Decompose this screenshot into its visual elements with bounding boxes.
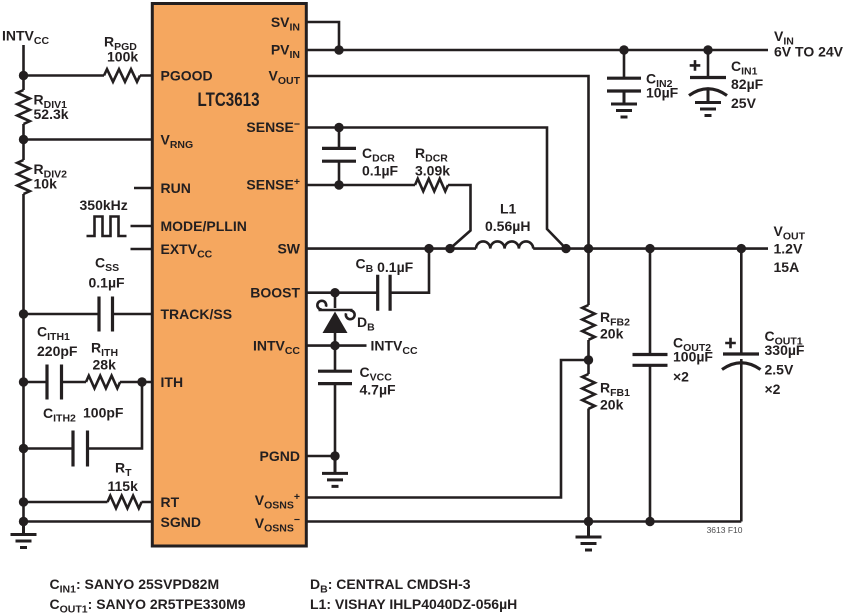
wire PVIN to VIN [308, 49, 769, 52]
node junction dot rail-VRNG [19, 135, 28, 144]
capacitor CVCC [318, 346, 352, 461]
resistor RITH [86, 376, 120, 389]
svg-text:100µF: 100µF [673, 349, 713, 365]
node junction dot SENSE+ CDCR [334, 180, 343, 189]
node junction dot VIN-CIN1 [703, 45, 712, 54]
ground below CIN1 [695, 90, 721, 116]
resistor RDIV2 [17, 160, 30, 194]
wire VOUT pin right and down to SW bus [308, 76, 589, 249]
wire rail segment below RDIV2 down to SGND [22, 194, 25, 522]
node junction dot PGND [330, 451, 339, 460]
capacitor CB [378, 275, 390, 311]
resistor RT [108, 496, 142, 509]
wire PGND pin [308, 455, 336, 458]
svg-text:0.1µF: 0.1µF [362, 163, 399, 179]
node junction dot VIN-CIN2 [619, 45, 628, 54]
svg-text:PGND: PGND [260, 448, 300, 464]
op-amp U1 LTC3613 body [152, 4, 306, 547]
wire VRNG to rail [24, 138, 152, 141]
wire SW bus left of L1 [308, 247, 477, 250]
svg-text:52.3k: 52.3k [34, 106, 69, 122]
svg-text:PGOOD: PGOOD [161, 68, 213, 84]
svg-text:LTC3613: LTC3613 [198, 90, 260, 111]
svg-text:10µF: 10µF [646, 85, 679, 101]
node junction dot SENSE- CDCR [334, 123, 343, 132]
svg-text:3613 F10: 3613 F10 [707, 525, 743, 535]
ground signal ground below SGND [11, 522, 37, 548]
wire MODE/PLLIN stub [131, 225, 152, 228]
svg-text:25V: 25V [731, 95, 757, 111]
capacitor CDCR [322, 128, 356, 186]
node junction dot feedback tap [584, 355, 593, 364]
node junction dot rail-RT [19, 497, 28, 506]
wire RFB2 top lead [587, 249, 590, 305]
svg-text:TRACK/SS: TRACK/SS [161, 306, 233, 322]
wire SVIN jog to PVIN [308, 22, 340, 50]
capacitor CIN1 polarized [689, 50, 727, 96]
node junction dot L1 right sense [561, 244, 570, 253]
node junction dot SW-CB [424, 244, 433, 253]
svg-text:82µF: 82µF [731, 76, 764, 92]
wire INTVCC rail segment top [22, 45, 25, 90]
svg-text:20k: 20k [600, 397, 624, 413]
capacitor COUT2 [633, 355, 668, 366]
svg-text:L1: VISHAY IHLP4040DZ-056µH: L1: VISHAY IHLP4040DZ-056µH [310, 596, 517, 612]
inductor L1 [476, 241, 533, 248]
node junction dot VOUT-COUT1 [737, 244, 746, 253]
svg-text:ITH: ITH [161, 374, 184, 390]
svg-text:RT: RT [161, 494, 180, 510]
svg-text:×2: ×2 [765, 381, 781, 397]
capacitor CITH2 [73, 431, 88, 467]
svg-text:15A: 15A [774, 259, 800, 275]
svg-text:100k: 100k [107, 49, 138, 65]
svg-text:RUN: RUN [161, 180, 191, 196]
wire RFB2 bottom lead [587, 340, 590, 374]
wire RT to rail [24, 501, 152, 504]
wire COUT2 branch [649, 249, 652, 522]
node junction dot rail-SGND [19, 517, 28, 526]
svg-text:28k: 28k [93, 357, 117, 373]
svg-text:4.7µF: 4.7µF [360, 382, 397, 398]
node junction dot ITH-CITH2 branch [137, 377, 146, 386]
svg-text:20k: 20k [600, 326, 624, 342]
wire VOSNS+ to feedback divider tap [308, 360, 589, 498]
svg-text:L1: L1 [500, 201, 517, 217]
resistor RPGD [104, 69, 140, 82]
capacitor CSS [99, 297, 113, 332]
capacitor CITH1 [47, 365, 62, 400]
node junction dot VOUT-COUT2 [645, 244, 654, 253]
wire rail segment between RDIV1 and RDIV2 [22, 124, 25, 160]
node junction dot BOOST-DB [330, 288, 339, 297]
ground below CIN2 [611, 91, 637, 117]
svg-text:115k: 115k [108, 478, 139, 494]
node junction dot SVIN-PVIN [334, 45, 343, 54]
svg-text:0.56µH: 0.56µH [485, 218, 530, 234]
wire CITH2 branch [24, 382, 143, 449]
node junction dot RFB1-ground bus [584, 517, 593, 526]
resistor RFB1 [582, 374, 595, 409]
svg-text:3.09k: 3.09k [415, 163, 450, 179]
capacitor COUT1 polarized [722, 354, 761, 370]
svg-text:×2: ×2 [673, 369, 689, 385]
svg-text:0.1µF: 0.1µF [89, 275, 126, 291]
wire RFB1 bottom lead [587, 409, 590, 522]
wire INTVCC pin to net label [308, 344, 367, 347]
node clock waveform symbol [87, 217, 127, 237]
wire VOSNS- ground bus [308, 520, 742, 523]
wire VOUT bus right of L1 [533, 247, 768, 250]
wire COUT1 branch [740, 249, 743, 522]
svg-text:SW: SW [277, 241, 300, 257]
wire PGOOD to rail [24, 74, 152, 77]
ground below feedback divider [576, 524, 602, 550]
svg-text:MODE/PLLIN: MODE/PLLIN [161, 218, 247, 234]
svg-text:100pF: 100pF [83, 405, 124, 421]
svg-text:330µF: 330µF [765, 342, 805, 358]
capacitor CIN1 plus sign [690, 60, 701, 71]
svg-text:SENSE+: SENSE+ [246, 176, 300, 193]
wire EXTVCC stub [131, 248, 152, 251]
node junction dot VOUT bus - feedback [584, 244, 593, 253]
diode DB schottky [317, 293, 354, 346]
wire ITH to rail [24, 381, 152, 384]
node junction dot SW-L1 left [445, 244, 454, 253]
svg-text:2.5V: 2.5V [765, 362, 794, 378]
capacitor CIN2 [607, 50, 641, 92]
node junction dot rail-ITH [19, 377, 28, 386]
node junction dot rail-PGOOD [19, 71, 28, 80]
ground power ground below PGND [322, 460, 348, 486]
wire TRACK/SS to rail [24, 313, 152, 316]
node junction dot COUT2-ground bus [645, 517, 654, 526]
wire SGND to rail [24, 520, 152, 523]
resistor RDCR [415, 179, 448, 192]
svg-text:6V TO 24V: 6V TO 24V [774, 44, 844, 60]
wire BOOST to CB [308, 249, 430, 293]
capacitor COUT1 plus sign [725, 338, 736, 349]
node junction dot rail-CITH2 [19, 444, 28, 453]
resistor RFB2 [582, 305, 595, 340]
svg-text:350kHz: 350kHz [80, 197, 128, 213]
svg-text:SGND: SGND [161, 514, 201, 530]
node junction dot INTVCC [330, 341, 339, 350]
svg-text:10k: 10k [34, 176, 58, 192]
node junction dot rail-TRACK/SS [19, 309, 28, 318]
svg-text:BOOST: BOOST [250, 285, 300, 301]
svg-text:220pF: 220pF [37, 343, 78, 359]
resistor RDIV1 [17, 90, 30, 124]
wire SENSE- right, down and diagonal to L1 right terminal [308, 128, 567, 249]
svg-text:1.2V: 1.2V [774, 241, 803, 257]
wire RUN stub [134, 187, 151, 190]
svg-text:SENSE−: SENSE− [246, 119, 300, 136]
wire SENSE+ to RDCR [308, 185, 471, 249]
